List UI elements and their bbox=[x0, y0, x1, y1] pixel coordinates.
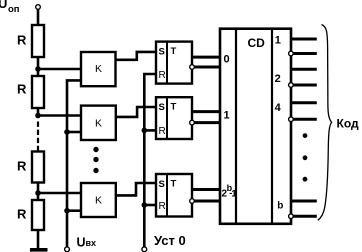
wire bbox=[38, 192, 81, 195]
svg-text:R: R bbox=[17, 82, 27, 97]
pin inverted output circle bbox=[289, 83, 294, 88]
wire bbox=[67, 131, 81, 134]
svg-text:Уст 0: Уст 0 bbox=[154, 233, 186, 248]
comparator K3 bbox=[81, 183, 116, 217]
pin inverted output circle bbox=[289, 117, 294, 122]
resistor R3 bbox=[32, 152, 44, 183]
wire bbox=[38, 68, 81, 71]
svg-text:S: S bbox=[159, 179, 165, 190]
wire bbox=[37, 57, 40, 76]
svg-text:CD: CD bbox=[248, 36, 266, 50]
svg-text:T: T bbox=[171, 46, 177, 57]
wire (code bit 4 inverted) bbox=[293, 118, 317, 121]
svg-text:2: 2 bbox=[275, 73, 281, 85]
node Uvx-K3 junction bbox=[64, 208, 70, 214]
wire bbox=[37, 9, 40, 25]
svg-text:R: R bbox=[159, 70, 166, 81]
svg-text:R: R bbox=[17, 33, 27, 48]
wire (FF2 Qbar to CD) bbox=[194, 121, 220, 124]
wire (FF2 Q to CD) bbox=[192, 110, 220, 113]
svg-text:S: S bbox=[159, 102, 165, 113]
wire (code bit 4 true) bbox=[291, 101, 317, 104]
wire (K2 out to FF2 S) bbox=[116, 107, 156, 117]
wire (FF3 Qbar to CD) bbox=[194, 200, 220, 203]
svg-text:U: U bbox=[0, 0, 7, 11]
wire (code bit 2 inverted) bbox=[293, 84, 317, 87]
wire Ust0 bus bbox=[144, 74, 156, 247]
wire (code bit 2 true) bbox=[291, 68, 317, 71]
wire bbox=[37, 108, 40, 118]
wire (code bit 1 true) bbox=[291, 38, 317, 41]
wire (K1 out to FF1 S) bbox=[116, 52, 157, 60]
terminal Ust0 bbox=[142, 247, 147, 252]
svg-text:вх: вх bbox=[86, 238, 97, 248]
node ellipsis (output column) bbox=[303, 133, 308, 181]
node Ust0-FF2 junction bbox=[142, 128, 148, 134]
svg-text:K: K bbox=[95, 195, 102, 207]
node Uop label bbox=[0, 0, 20, 15]
resistor R2 bbox=[32, 76, 44, 108]
svg-text:0: 0 bbox=[224, 54, 230, 66]
svg-text:T: T bbox=[171, 179, 177, 190]
wire bbox=[37, 230, 40, 249]
node ellipsis (comparator column) bbox=[93, 147, 98, 173]
svg-text:U: U bbox=[77, 236, 86, 250]
flip-flop U2 (RS trigger 2) bbox=[156, 97, 192, 139]
pin FF2 Qbar (inverting circle) bbox=[190, 120, 195, 125]
svg-text:1: 1 bbox=[275, 34, 281, 46]
svg-text:K: K bbox=[95, 117, 102, 129]
wire Uvx bus bbox=[67, 80, 81, 246]
wire (FF1 Q to CD) bbox=[192, 56, 220, 59]
wire bbox=[38, 114, 81, 117]
pin CD input 2^b-1 bbox=[222, 183, 238, 200]
wire (K3 out to FF3 S) bbox=[116, 183, 156, 195]
wire (FF1 Qbar to CD) bbox=[194, 66, 220, 69]
resistor R4 bbox=[32, 200, 44, 230]
wire (code bit b true) bbox=[291, 200, 317, 203]
svg-text:K: K bbox=[95, 63, 102, 75]
svg-text:R: R bbox=[159, 126, 166, 137]
node Kod brace bbox=[318, 25, 332, 221]
svg-text:Код: Код bbox=[337, 117, 359, 131]
node Ust0-FF3 junction bbox=[142, 202, 148, 208]
svg-text:R: R bbox=[159, 201, 166, 212]
pin inverted output circle bbox=[289, 51, 294, 56]
pin FF3 Qbar (inverting circle) bbox=[190, 199, 195, 204]
comparator K1 bbox=[81, 52, 116, 86]
flip-flop U3 (RS trigger 3) bbox=[156, 174, 192, 217]
svg-text:4: 4 bbox=[275, 102, 282, 114]
svg-text:b: b bbox=[277, 201, 283, 212]
flip-flop U1 (RS trigger 1) bbox=[156, 42, 192, 84]
svg-text:R: R bbox=[17, 159, 27, 174]
node Uvx-K2 junction bbox=[64, 129, 70, 135]
comparator K2 bbox=[81, 106, 116, 140]
svg-text:1: 1 bbox=[224, 110, 230, 122]
pin inverted output circle bbox=[289, 214, 294, 219]
pin FF1 Qbar (inverting circle) bbox=[190, 65, 195, 70]
wire bbox=[144, 129, 156, 132]
svg-text:T: T bbox=[171, 102, 177, 113]
wire bbox=[37, 182, 40, 200]
svg-text:оп: оп bbox=[8, 4, 20, 15]
terminal Uop bbox=[36, 5, 41, 10]
terminal Uvx bbox=[65, 247, 70, 252]
wire bbox=[144, 204, 156, 207]
node Uvx label bbox=[77, 236, 97, 250]
svg-text:S: S bbox=[159, 47, 165, 58]
wire (code bit b inverted) bbox=[293, 215, 317, 218]
wire (code bit 1 inverted) bbox=[293, 52, 317, 55]
node A (tap 1) bbox=[35, 66, 41, 72]
svg-text:1: 1 bbox=[231, 189, 237, 200]
wire (FF3 Q to CD) bbox=[192, 188, 220, 191]
svg-text:R: R bbox=[17, 207, 27, 222]
wire (dashed chain continuation) bbox=[37, 122, 39, 153]
ground bbox=[30, 248, 48, 252]
wire bbox=[67, 209, 81, 212]
resistor R1 bbox=[32, 25, 44, 57]
node B (tap 2) bbox=[35, 113, 41, 119]
encoder CD bbox=[220, 29, 291, 224]
node C (tap 3) bbox=[35, 190, 41, 196]
